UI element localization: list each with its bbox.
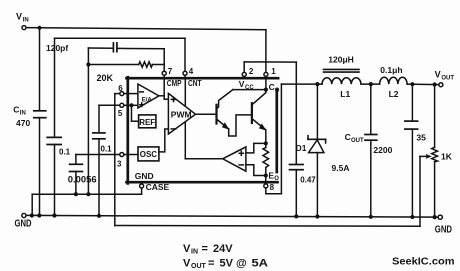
- svg-text:GND: GND: [135, 171, 154, 181]
- resistor sense: [263, 143, 269, 175]
- IC box edges: [127, 77, 279, 183]
- inductor L1 120uH: [322, 55, 361, 99]
- svg-text:@: @: [236, 257, 247, 269]
- svg-text:O: O: [275, 88, 280, 94]
- wire pin 2 jog to VIN riser: [244, 62, 296, 72]
- svg-text:SeekIC.com: SeekIC.com: [392, 255, 455, 267]
- pin 6: [118, 84, 124, 96]
- svg-text:V: V: [16, 11, 22, 21]
- transistor Q2: [252, 90, 267, 144]
- svg-text:24V: 24V: [213, 243, 233, 255]
- wire top VIN rail: [26, 28, 266, 30]
- wire CNT internal to comparator output: [184, 78, 186, 159]
- svg-text:IN: IN: [20, 111, 26, 117]
- comparator PWM: [168, 93, 195, 134]
- resistor 20K: [88, 62, 164, 83]
- wire CASE ground run: [32, 188, 141, 215]
- capacitor 35: [405, 84, 426, 217]
- wire comparator output: [185, 158, 222, 160]
- transistor Q1: [217, 90, 233, 130]
- svg-text:6: 6: [118, 84, 123, 93]
- svg-text:V: V: [435, 70, 441, 80]
- inductor L2 0.1uh: [380, 65, 408, 99]
- pin 1: [264, 67, 276, 77]
- svg-text:8: 8: [270, 183, 275, 192]
- svg-text:CNT: CNT: [188, 78, 202, 88]
- wire pin 8 to switch node: [266, 84, 282, 194]
- wire L1 to L2: [361, 83, 380, 85]
- wire L2 to VOUT: [407, 83, 439, 86]
- svg-text:2200: 2200: [373, 145, 392, 155]
- node D1 on rail: [315, 214, 319, 218]
- svg-text:1: 1: [271, 67, 276, 76]
- wire pin 3 net: [76, 155, 120, 165]
- wire feedback bottom run: [115, 225, 420, 228]
- svg-text:5V: 5V: [220, 257, 234, 269]
- svg-text:4: 4: [189, 67, 194, 76]
- node pin5 junction: [129, 103, 133, 107]
- node D1 L1: [315, 82, 319, 86]
- capacitor COUT 2200: [345, 84, 393, 217]
- wire PWM minus jog to OSC: [159, 129, 169, 152]
- wire VIN rail drop to pin 1: [265, 30, 267, 72]
- svg-text:5A: 5A: [252, 257, 269, 269]
- node Vcc internal: [264, 88, 268, 92]
- diode D1 schottky: [296, 84, 350, 216]
- capacitor 0.1 timing: [47, 137, 70, 215]
- svg-text:C: C: [345, 132, 351, 142]
- capacitor 0.47: [290, 62, 317, 216]
- node 0.0056 on case run: [74, 192, 78, 196]
- node 0.47 on rail: [294, 214, 298, 218]
- svg-text:GND: GND: [15, 218, 32, 230]
- wire switch output run: [281, 83, 322, 85]
- wiper arrow into 1K: [420, 154, 432, 159]
- svg-text:35: 35: [416, 133, 426, 143]
- svg-text:L2: L2: [389, 89, 399, 99]
- node 1K top: [433, 82, 437, 86]
- wire comparator minus jog: [246, 165, 266, 176]
- wire CNT timing net to pin 4: [55, 38, 186, 137]
- capacitor 120pf feedback: [88, 43, 164, 65]
- terminal GND left: [15, 213, 32, 229]
- op-amp current limit: [223, 147, 246, 171]
- svg-text:9.5A: 9.5A: [332, 163, 350, 173]
- svg-text:5: 5: [118, 109, 123, 118]
- label Vcc: [239, 79, 255, 91]
- node 35 cap: [410, 82, 414, 86]
- wire CMP drop to pin 7: [163, 49, 165, 71]
- svg-text:=: =: [208, 257, 214, 269]
- terminal VOUT: [435, 70, 455, 87]
- node 0.1 pin5 on rail: [97, 214, 101, 218]
- wire pin 6 net: [115, 94, 120, 226]
- node Eo: [264, 173, 268, 177]
- svg-text:0.1μh: 0.1μh: [380, 65, 402, 75]
- svg-text:7: 7: [168, 67, 173, 76]
- svg-text:D1: D1: [296, 143, 307, 153]
- node COUT: [369, 82, 373, 86]
- terminal VIN: [16, 11, 29, 29]
- svg-text:CMP: CMP: [167, 78, 182, 88]
- wire pin 5 net: [99, 105, 119, 132]
- terminal GND right: [435, 215, 452, 235]
- node 0.1 timing on rail: [52, 213, 56, 217]
- node COUT on rail: [369, 215, 373, 219]
- pin stubs through edges: [124, 76, 266, 184]
- wire GND rail: [26, 215, 438, 217]
- node comp on case run: [86, 192, 90, 196]
- pin 4: [183, 67, 194, 76]
- svg-text:V: V: [239, 79, 245, 89]
- svg-text:120pf: 120pf: [46, 43, 68, 53]
- svg-text:OUT: OUT: [351, 138, 364, 144]
- svg-text:PWM: PWM: [171, 109, 192, 119]
- node CIN tap: [37, 26, 41, 30]
- svg-text:GND: GND: [435, 223, 452, 235]
- pin 5: [118, 103, 124, 118]
- pin 8: [264, 183, 275, 192]
- capacitor CIN 470: [13, 28, 46, 216]
- svg-text:O: O: [274, 176, 279, 182]
- svg-text:IN: IN: [191, 249, 198, 256]
- wire comparator plus jog: [246, 143, 266, 153]
- svg-text:470: 470: [16, 118, 30, 128]
- node 1K bottom: [433, 215, 437, 219]
- label Co: [269, 82, 280, 94]
- wire Q1 emitter to Q2 base: [229, 115, 252, 136]
- svg-text:OSC: OSC: [140, 150, 158, 159]
- svg-text:CASE: CASE: [146, 182, 170, 192]
- wire feedback riser to 1K wiper: [419, 156, 421, 226]
- svg-text:1K: 1K: [441, 152, 453, 162]
- label Eo: [268, 170, 279, 182]
- pin 7: [162, 67, 173, 76]
- svg-text:3: 3: [117, 160, 122, 169]
- svg-text:V: V: [183, 243, 191, 255]
- svg-text:V: V: [183, 257, 191, 269]
- svg-text:0.0056: 0.0056: [68, 174, 97, 184]
- node CIN on rail: [37, 213, 41, 217]
- node sense top: [264, 141, 268, 145]
- resistor 1K: [432, 85, 453, 218]
- svg-text:0.47: 0.47: [300, 176, 316, 185]
- pin 2: [242, 67, 254, 77]
- svg-text:0.1: 0.1: [101, 145, 113, 154]
- caption line 2: [183, 257, 268, 270]
- node 35 on rail: [410, 215, 414, 219]
- block OSC: [138, 147, 159, 161]
- svg-text:0.1: 0.1: [59, 148, 71, 157]
- svg-text:=: =: [202, 243, 208, 255]
- block REF: [139, 115, 156, 128]
- wire pin7 internal to PWM plus: [159, 78, 169, 99]
- node comp network: [86, 62, 90, 66]
- node case run on rail: [30, 213, 34, 217]
- wire Vcc internal rail: [233, 89, 266, 91]
- svg-text:REF: REF: [139, 118, 155, 127]
- wire comp network vertical: [87, 65, 89, 195]
- svg-text:OUT: OUT: [191, 263, 207, 270]
- caption line 1: [183, 243, 233, 256]
- capacitor 0.0056: [68, 164, 97, 194]
- svg-text:2: 2: [249, 67, 254, 76]
- svg-text:E/A: E/A: [142, 97, 153, 103]
- wire REF tap: [132, 105, 139, 121]
- pin CASE: [140, 182, 170, 192]
- op-amp E/A: [138, 84, 159, 108]
- svg-text:OUT: OUT: [441, 76, 454, 82]
- svg-text:IN: IN: [23, 17, 29, 23]
- pin 3: [117, 153, 124, 169]
- svg-text:L1: L1: [340, 89, 350, 99]
- svg-text:C: C: [13, 105, 19, 115]
- svg-text:20K: 20K: [97, 73, 114, 83]
- svg-text:120μH: 120μH: [328, 55, 354, 65]
- wire PWM output to Q1 base: [196, 113, 216, 115]
- capacitor 0.1 pin5: [93, 133, 112, 216]
